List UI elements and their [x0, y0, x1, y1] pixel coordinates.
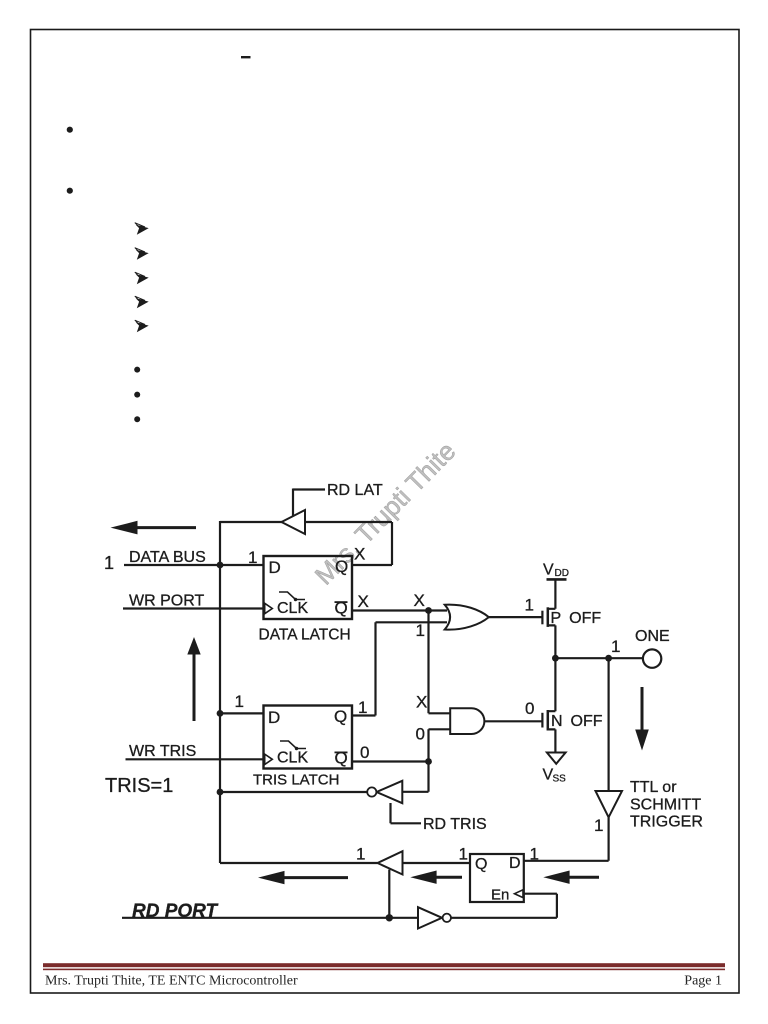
svg-text:CLK: CLK [277, 750, 308, 767]
svg-text:D: D [509, 855, 521, 872]
svg-text:Mrs. Trupti Thite, TE ENTC Mic: Mrs. Trupti Thite, TE ENTC Microcontroll… [45, 974, 298, 989]
svg-text:CLK: CLK [277, 600, 308, 617]
svg-text:P OFF: P OFF [551, 610, 602, 627]
svg-text:DD: DD [555, 568, 569, 579]
svg-text:1: 1 [611, 637, 620, 656]
svg-text:X: X [416, 693, 427, 712]
svg-text:RD LAT: RD LAT [327, 482, 383, 499]
svg-text:Page 1: Page 1 [684, 974, 722, 989]
svg-text:0: 0 [525, 699, 534, 718]
svg-text:1: 1 [416, 621, 425, 640]
svg-text:SCHMITT: SCHMITT [630, 797, 701, 814]
svg-text:1: 1 [356, 845, 365, 864]
svg-text:V: V [543, 562, 554, 579]
svg-text:Mrs. Trupti Thite: Mrs. Trupti Thite [309, 436, 462, 591]
svg-text:TRIGGER: TRIGGER [630, 814, 703, 831]
svg-text:TTL or: TTL or [630, 779, 677, 796]
svg-text:Q: Q [475, 856, 487, 873]
svg-text:N OFF: N OFF [551, 713, 603, 730]
svg-text:Q: Q [335, 557, 348, 576]
svg-text:1: 1 [248, 548, 257, 567]
svg-text:X: X [358, 592, 369, 611]
svg-text:1: 1 [530, 845, 539, 864]
svg-text:DATA LATCH: DATA LATCH [259, 627, 351, 644]
svg-text:RD PORT: RD PORT [132, 901, 219, 922]
svg-text:1: 1 [235, 692, 244, 711]
svg-text:Q: Q [335, 749, 348, 768]
svg-text:0: 0 [416, 725, 425, 744]
svg-text:Q: Q [334, 707, 347, 726]
svg-text:1: 1 [525, 596, 534, 615]
svg-text:WR TRIS: WR TRIS [129, 743, 196, 760]
svg-text:En: En [491, 887, 509, 904]
svg-text:0: 0 [360, 743, 369, 762]
svg-text:RD TRIS: RD TRIS [423, 816, 487, 833]
svg-text:D: D [268, 708, 280, 727]
svg-text:ONE: ONE [635, 628, 670, 645]
svg-text:TRIS=1: TRIS=1 [105, 775, 173, 797]
svg-text:X: X [354, 545, 365, 564]
svg-text:SS: SS [553, 774, 567, 785]
svg-text:1: 1 [594, 816, 603, 835]
svg-text:D: D [269, 558, 281, 577]
svg-text:1: 1 [459, 845, 468, 864]
svg-text:DATA BUS: DATA BUS [129, 549, 206, 566]
svg-text:TRIS LATCH: TRIS LATCH [253, 772, 339, 789]
svg-text:1: 1 [358, 698, 367, 717]
svg-text:1: 1 [104, 553, 114, 573]
svg-text:WR PORT: WR PORT [129, 593, 204, 610]
svg-text:X: X [414, 591, 425, 610]
